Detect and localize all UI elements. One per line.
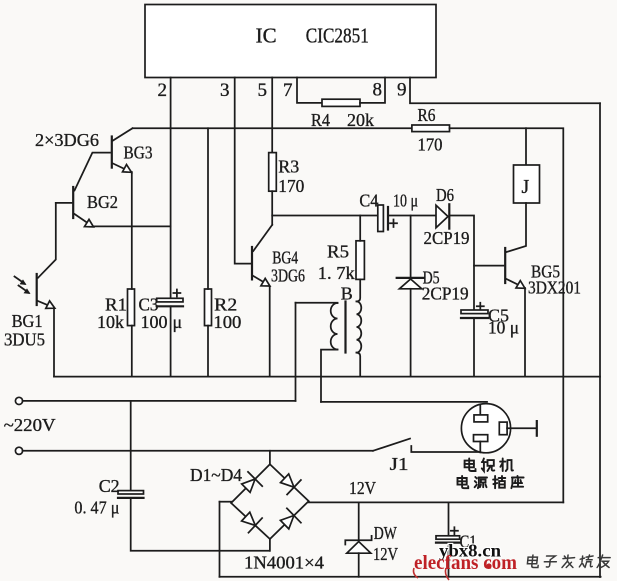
svg-text:10 μ: 10 μ xyxy=(393,191,418,211)
wire 220V bottom line to J1 xyxy=(23,450,373,452)
watermark red squiggle 1 xyxy=(414,568,419,578)
svg-text:CIC2851: CIC2851 xyxy=(306,24,369,48)
svg-text:J1: J1 xyxy=(390,454,409,474)
resistor R5 xyxy=(356,241,364,280)
socket slot upper-left xyxy=(474,415,488,422)
capacitor C2 bottom plate xyxy=(118,497,144,499)
wire AC node vertical to bottom rail xyxy=(219,502,221,577)
transistor BG2 emitter xyxy=(75,214,92,226)
light arrow 2 into BG1 xyxy=(19,286,29,293)
transformer B primary bottom lead xyxy=(321,350,338,402)
socket top stub xyxy=(479,405,481,415)
transistor BG2 emitter arrow xyxy=(85,219,94,227)
node bottom rail xyxy=(220,576,601,578)
wire socket right pin lead xyxy=(507,427,536,429)
svg-text:R4: R4 xyxy=(311,110,330,130)
diode D2 bar slash xyxy=(287,480,301,495)
capacitor C3 top plate xyxy=(157,298,183,302)
wire C5 bottom to bus xyxy=(473,318,475,377)
transistor BG4 emitter xyxy=(253,276,267,285)
watermark elecfans chinese (dianzifashaoyou) pseudo-glyphs xyxy=(527,555,610,568)
svg-text:12V: 12V xyxy=(373,544,398,564)
wire BG3 emitter down to node xyxy=(131,172,133,226)
node main supply rail y=128 xyxy=(133,127,412,129)
resistor R6 xyxy=(412,125,450,132)
socket circle xyxy=(461,404,510,453)
transformer B secondary winding (4 arcs bulging right) xyxy=(357,301,362,352)
capacitor C4 plus xyxy=(390,220,397,228)
svg-text:3: 3 xyxy=(220,80,230,101)
wire pin 7 to R4 left xyxy=(297,78,322,103)
transistor BG3 base bar xyxy=(111,137,113,168)
diode D6 cathode bar xyxy=(448,204,450,228)
wire 220V top line to transformer xyxy=(23,400,296,402)
wire pin 3 down to BG4 base xyxy=(235,78,251,264)
wire R3 bottom to signal row xyxy=(271,191,273,225)
node signal row y=215.5 xyxy=(272,215,377,217)
svg-text:R6: R6 xyxy=(418,105,436,125)
capacitor C1 lead from rail xyxy=(448,502,450,535)
IC U1 CIC2851 box xyxy=(145,5,436,78)
svg-text:D6: D6 xyxy=(436,185,454,205)
diode D5 cathode bar xyxy=(397,277,424,279)
bridge rectifier D1~D4 diamond xyxy=(231,464,309,539)
switch J1 fixed contact xyxy=(411,446,487,452)
wire R5 top xyxy=(359,216,361,241)
terminal L (top 220V) xyxy=(15,397,22,404)
resistor R3 xyxy=(269,153,277,192)
diode D5 triangle xyxy=(399,279,421,289)
socket bottom stub xyxy=(479,442,481,453)
svg-text:5: 5 xyxy=(258,80,268,101)
transistor BG4 collector diagonal xyxy=(253,225,272,251)
svg-text:BG4: BG4 xyxy=(272,248,298,268)
svg-text:100: 100 xyxy=(141,312,168,332)
wire secondary bottom to bus xyxy=(357,353,361,377)
transistor BG2 base bar xyxy=(72,187,74,218)
zener DW lead from rail xyxy=(358,502,360,539)
svg-text:12V: 12V xyxy=(349,478,376,498)
transistor BG3 collector xyxy=(113,128,133,140)
transistor BG4 emitter arrow xyxy=(261,278,270,286)
resistor R4 xyxy=(322,99,360,106)
svg-text:C4: C4 xyxy=(359,191,378,211)
svg-text:9: 9 xyxy=(397,80,407,101)
capacitor C4 right plate xyxy=(387,207,389,230)
transistor BG1 base bar xyxy=(36,274,38,305)
wire R2 top from rail xyxy=(207,128,209,289)
socket plug T-bar xyxy=(536,421,538,436)
capacitor C5 bottom plate xyxy=(461,317,488,319)
wire BG1 emitter down to bus xyxy=(53,308,55,377)
switch J1 arm xyxy=(373,439,410,451)
svg-text:2: 2 xyxy=(158,80,168,101)
wire C4 right plate to D6 anode xyxy=(388,215,436,217)
capacitor C1 bottom plate xyxy=(436,541,460,543)
zener DW cathode bar with wings xyxy=(345,536,371,545)
svg-text:IC: IC xyxy=(256,24,277,48)
svg-text:R5: R5 xyxy=(327,242,349,262)
transistor BG1 emitter xyxy=(38,301,53,307)
svg-text:100: 100 xyxy=(213,312,241,332)
svg-text:1. 7k: 1. 7k xyxy=(318,263,355,283)
wire DW bottom to bottom rail xyxy=(358,553,360,577)
wire C3 bottom to bus xyxy=(170,306,172,376)
capacitor C2 top lead xyxy=(130,401,132,491)
capacitor C3 plus sign xyxy=(173,290,180,297)
svg-text:170: 170 xyxy=(418,135,443,155)
svg-text:μ: μ xyxy=(173,312,183,332)
wire pin 2 stub down xyxy=(170,78,172,129)
watermark red squiggle 2 xyxy=(445,568,449,580)
svg-text:elecfans com: elecfans com xyxy=(414,552,517,574)
transistor BG1 emitter arrow xyxy=(46,301,55,309)
transistor BG5 emitter arrow xyxy=(516,281,525,289)
capacitor C2 top plate xyxy=(118,491,144,494)
capacitor C4 left plate xyxy=(378,205,384,232)
svg-text:D1~D4: D1~D4 xyxy=(190,465,242,485)
terminal N (bottom 220V) xyxy=(15,447,22,454)
diode D2 (top-right arm) triangle xyxy=(281,474,295,487)
capacitor C5 plus xyxy=(477,303,484,310)
wire bridge top corner up to AC line xyxy=(269,451,271,464)
svg-text:2×3DG6: 2×3DG6 xyxy=(35,130,99,150)
svg-text:J: J xyxy=(522,176,530,198)
socket slot lower-left xyxy=(474,435,488,442)
label TV (dianshiji) pseudo-glyphs xyxy=(465,459,513,472)
transformer B primary left lead down xyxy=(295,303,297,401)
transistor BG4 base bar xyxy=(251,247,253,279)
svg-text:2CP19: 2CP19 xyxy=(424,228,470,248)
diode D3 (bottom-left arm) triangle xyxy=(242,512,256,525)
wire BG5 base from C5 line xyxy=(474,265,504,267)
diode D1 (top-left arm) triangle xyxy=(242,479,255,492)
wire pin2/C3 line down xyxy=(170,128,172,298)
transistor BG1 collector up to BG2 base xyxy=(38,203,56,278)
svg-text:10k: 10k xyxy=(97,312,124,332)
svg-text:3DX201: 3DX201 xyxy=(528,278,581,298)
transformer B primary winding (3 arcs bulging left) xyxy=(331,303,338,350)
wire R1 bottom to bus xyxy=(131,326,133,377)
wire BG5 emitter down to bus xyxy=(524,288,526,377)
svg-text:8: 8 xyxy=(373,80,383,101)
wire pin 5 down to R3 xyxy=(271,78,273,153)
node 12V rail xyxy=(309,501,564,503)
svg-text:0. 47 μ: 0. 47 μ xyxy=(74,498,119,518)
capacitor C1 top plate xyxy=(436,536,460,539)
diode D3 bar slash xyxy=(249,518,263,533)
svg-text:BG2: BG2 xyxy=(87,192,118,212)
wire R6 right, corner down to 12V rail xyxy=(450,128,564,502)
wire R4 right to pin 8 xyxy=(360,78,385,103)
resistor R2 xyxy=(205,289,212,326)
wire D5 bottom to bus xyxy=(410,289,412,377)
diode D4 bar slash xyxy=(287,508,301,522)
transistor BG3 emitter arrow xyxy=(123,165,132,173)
socket slot right xyxy=(499,422,507,435)
wire BG2 emitter node row to C3/pin2 line xyxy=(93,225,171,227)
label power socket (dianyuan chazuo) pseudo-glyphs xyxy=(458,476,524,488)
wire 220V continues right of transformer to socket xyxy=(321,401,487,403)
resistor R1 xyxy=(128,289,135,326)
capacitor C3 bottom plate xyxy=(157,305,183,307)
transistor BG5 base bar xyxy=(504,248,506,283)
wire BG4 emitter down to bus xyxy=(269,287,271,377)
svg-text:C2: C2 xyxy=(99,476,120,496)
transistor BG2 collector to BG3 base xyxy=(75,153,111,191)
diode D1 bar slash xyxy=(248,472,262,486)
diode D6 triangle xyxy=(436,205,448,228)
svg-text:7: 7 xyxy=(283,80,293,101)
svg-text:BG1: BG1 xyxy=(12,311,43,331)
wire R5 bottom to secondary top xyxy=(357,279,361,301)
capacitor C5 top plate xyxy=(461,310,488,314)
svg-text:R3: R3 xyxy=(278,157,299,177)
capacitor C1 plus xyxy=(451,527,458,534)
transistor BG3 emitter xyxy=(113,164,130,172)
svg-text:~220V: ~220V xyxy=(4,415,56,435)
svg-text:3DG6: 3DG6 xyxy=(271,266,305,286)
wire C1 bottom to bottom rail xyxy=(448,543,450,577)
zener DW triangle xyxy=(347,542,371,554)
transistor BG5 collector xyxy=(507,203,527,252)
svg-text:DW: DW xyxy=(374,523,397,543)
svg-text:B: B xyxy=(341,284,353,304)
transformer B primary top lead xyxy=(296,302,338,304)
light arrow 1 into BG1 xyxy=(15,277,25,284)
svg-text:10 μ: 10 μ xyxy=(488,318,519,338)
svg-text:170: 170 xyxy=(278,176,304,196)
wire bridge left corner link xyxy=(220,501,232,503)
wire bridge bottom corner down xyxy=(269,539,271,551)
diode D4 (bottom-right arm) triangle xyxy=(280,516,294,529)
wire C2 bottom lead to bridge node xyxy=(131,498,270,551)
wire D5 stub down from signal row xyxy=(410,216,412,277)
svg-text:20k: 20k xyxy=(347,110,374,130)
wire R2 bottom to bus xyxy=(207,326,209,377)
svg-text:2CP19: 2CP19 xyxy=(422,284,469,304)
wire relay J stub from rail xyxy=(525,128,527,165)
svg-text:3DU5: 3DU5 xyxy=(4,330,45,350)
relay J box xyxy=(514,165,540,203)
svg-text:1N4001×4: 1N4001×4 xyxy=(244,553,324,573)
wire right edge vertical (pin9 line down right side) xyxy=(599,103,601,577)
wire D6 cathode right corner down xyxy=(451,216,475,311)
transformer B core bar xyxy=(344,302,346,353)
watermark elecfans dot xyxy=(486,563,491,568)
wire R1 top xyxy=(131,226,133,289)
node ground bus y=376.6 xyxy=(54,376,600,378)
transistor BG5 emitter xyxy=(507,279,523,287)
svg-text:BG3: BG3 xyxy=(124,143,153,163)
wire pin 9 to right edge xyxy=(410,78,600,104)
transistor BG2 base wire xyxy=(56,202,72,204)
